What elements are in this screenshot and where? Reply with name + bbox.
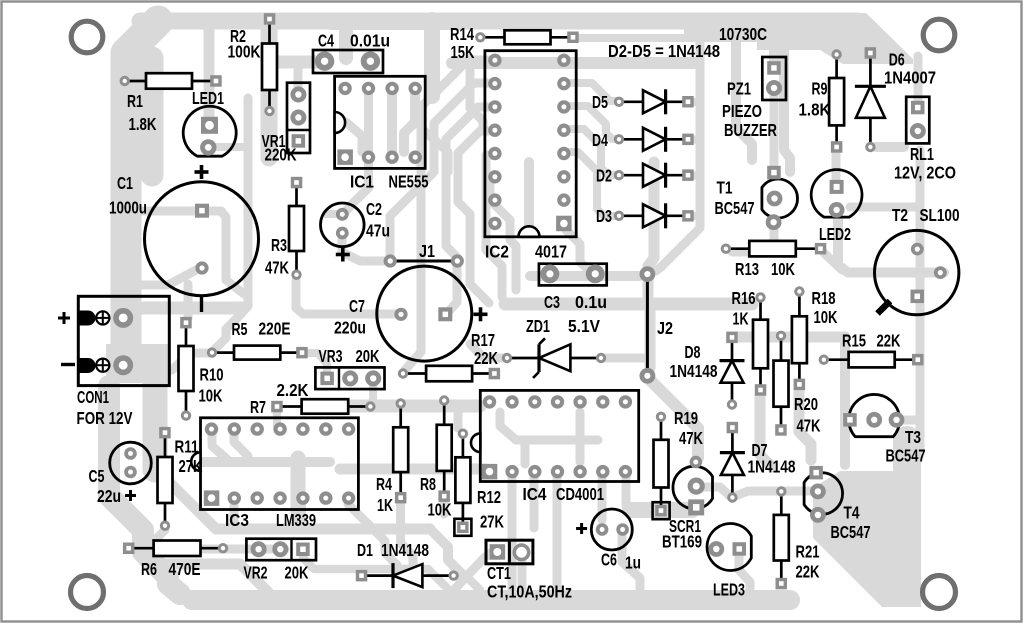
svg-text:LED3: LED3 bbox=[713, 579, 745, 599]
wire T3 to rail bbox=[898, 416, 918, 425]
wire central band bbox=[505, 298, 752, 311]
wire R4 drop to band bbox=[401, 502, 413, 566]
svg-text:R21: R21 bbox=[796, 542, 820, 562]
wire T1 emitter to R13 bbox=[732, 228, 774, 252]
resistor R18 bbox=[792, 286, 838, 390]
LED LED2 bbox=[811, 170, 862, 244]
wire R19 drop bbox=[622, 477, 631, 506]
wire left rail bottom diagonal bbox=[109, 386, 180, 594]
wire CT1 right stub bbox=[518, 560, 527, 590]
svg-text:C7: C7 bbox=[349, 296, 365, 316]
wire R6 through trace bbox=[130, 545, 285, 554]
wire C2 top stub bbox=[326, 210, 336, 218]
wire band over R4 R8 pads bbox=[340, 400, 480, 413]
capacitor C6 bbox=[576, 509, 641, 572]
svg-text:J2: J2 bbox=[657, 318, 673, 338]
wire IC2 fan 2 to J1 left bbox=[390, 83, 494, 256]
wire PZ1 feed bbox=[769, 32, 779, 60]
wire vertical left of IC2 bbox=[470, 58, 483, 129]
transistor T4 bbox=[804, 466, 870, 542]
wire C6 to bottom band bbox=[622, 535, 640, 592]
svg-text:D3: D3 bbox=[596, 206, 612, 226]
wire R5 right to VR3 bbox=[302, 353, 327, 374]
wire cathode stub D5 bbox=[690, 98, 700, 106]
zener ZD1 bbox=[502, 316, 606, 378]
svg-text:T3: T3 bbox=[905, 427, 921, 447]
svg-text:ZD1: ZD1 bbox=[526, 316, 550, 336]
wire IC2 fan 5 bbox=[486, 155, 502, 297]
resistor R7 bbox=[250, 380, 376, 417]
wire R3 column bbox=[296, 280, 303, 314]
svg-text:BT169: BT169 bbox=[662, 532, 702, 552]
svg-text:1N4148: 1N4148 bbox=[670, 361, 718, 381]
wire J2 to SCR1 anode bbox=[650, 380, 698, 458]
wire IC1 inner strand 1 bbox=[387, 94, 397, 152]
wire R16 R18 band bbox=[736, 332, 845, 343]
svg-text:D5: D5 bbox=[592, 92, 608, 112]
wire C1 negative elbow bbox=[140, 269, 198, 285]
wire C2 to J1 bbox=[342, 240, 384, 261]
wire R8 stub down bbox=[440, 502, 449, 514]
wire VR3 wiper to R7 bbox=[369, 384, 377, 400]
resistor R12 bbox=[454, 429, 504, 536]
resistor R15 bbox=[819, 331, 924, 368]
svg-text:15K: 15K bbox=[451, 42, 475, 62]
resistor R9 bbox=[799, 49, 845, 152]
svg-text:R16: R16 bbox=[732, 288, 756, 308]
wire IC4 inner elbow bbox=[500, 412, 598, 440]
svg-text:C5: C5 bbox=[89, 466, 105, 486]
svg-text:47u: 47u bbox=[366, 221, 390, 241]
wire diag into IC1 area bbox=[424, 20, 440, 96]
wire R11 pad drop bbox=[151, 530, 165, 544]
wire IC1 exit right bbox=[421, 128, 448, 172]
wire IC4 inner vertical 2 bbox=[576, 412, 585, 462]
resistor R6 bbox=[123, 541, 228, 580]
wire bottom right blob bbox=[813, 462, 921, 607]
svg-text:1.8K: 1.8K bbox=[799, 100, 831, 120]
svg-text:4017: 4017 bbox=[535, 242, 567, 262]
resistor R1 bbox=[120, 73, 222, 134]
svg-text:PIEZO: PIEZO bbox=[722, 101, 762, 121]
wire top supply band bbox=[140, 13, 858, 30]
mounting hole top-left bbox=[71, 21, 103, 53]
resistor R16 bbox=[732, 288, 769, 396]
wire IC3 corner diagonal bbox=[348, 504, 397, 565]
wire top right blob bbox=[684, 13, 913, 64]
wire D7 to T4 base bbox=[733, 491, 810, 497]
wire blob neck bbox=[893, 440, 921, 472]
svg-text:T1: T1 bbox=[717, 178, 733, 198]
resistor R19 bbox=[653, 408, 704, 519]
resistor R8 bbox=[420, 395, 452, 519]
svg-text:220E: 220E bbox=[259, 319, 291, 339]
svg-text:1N4148: 1N4148 bbox=[748, 457, 796, 477]
wire R16 drop bbox=[760, 395, 772, 467]
wire staircase diag 2 bbox=[240, 564, 268, 592]
wire IC3 underrun to CT1 bbox=[430, 529, 464, 576]
wire IC3 elbow 1 bbox=[212, 435, 228, 460]
wire IC4 pin 11 drop bbox=[530, 477, 539, 528]
wire staircase diag 1 bbox=[143, 552, 240, 564]
wire rail right of LED1 bbox=[214, 98, 248, 350]
wire RL1 rail down bbox=[850, 150, 920, 207]
wire D6 to RL1 bbox=[876, 142, 904, 152]
wire C4 feed bbox=[271, 56, 322, 69]
svg-text:47K: 47K bbox=[797, 416, 821, 436]
wire R7 to IC3 bbox=[273, 412, 281, 426]
svg-text:CON1: CON1 bbox=[77, 387, 109, 407]
resistor R2 bbox=[228, 13, 278, 116]
resistor R3 bbox=[265, 177, 304, 280]
wire J1 right to C7 plus bbox=[450, 267, 457, 310]
svg-text:PZ1: PZ1 bbox=[727, 79, 751, 99]
wire rail behind R2 bbox=[261, 23, 278, 158]
svg-text:R15: R15 bbox=[842, 331, 866, 351]
wire band through IC2 bbox=[452, 57, 698, 69]
svg-text:VR3: VR3 bbox=[319, 346, 343, 366]
svg-text:R11: R11 bbox=[175, 437, 199, 457]
svg-text:12V, 2CO: 12V, 2CO bbox=[894, 162, 956, 182]
svg-text:R19: R19 bbox=[674, 408, 698, 428]
svg-text:20K: 20K bbox=[356, 346, 380, 366]
wire diode cathode rail bbox=[656, 38, 700, 271]
svg-text:10K: 10K bbox=[814, 307, 838, 327]
resistor R21 bbox=[774, 486, 820, 589]
LED LED3 bbox=[707, 524, 751, 600]
wire rail behind J2 link bbox=[645, 308, 656, 368]
wire IC2 fan 4 bbox=[458, 131, 494, 303]
wire ZD1 right to J2 bbox=[601, 354, 646, 363]
wire R12 feed bbox=[454, 406, 463, 428]
trimpot VR1 bbox=[262, 83, 311, 165]
wire rail to IC3 under-run bbox=[155, 468, 430, 529]
wire SCR1 gate bar bbox=[630, 502, 692, 518]
resistor R20 bbox=[774, 331, 821, 436]
svg-text:R8: R8 bbox=[420, 474, 436, 494]
svg-text:1N4148: 1N4148 bbox=[381, 540, 429, 560]
wire IC4 pin 12 drop bbox=[508, 477, 517, 594]
svg-text:1K: 1K bbox=[377, 495, 393, 515]
resistor R13 bbox=[721, 241, 827, 279]
svg-text:VR2: VR2 bbox=[244, 563, 268, 583]
wire to C7 negative bbox=[303, 310, 396, 319]
svg-text:10K: 10K bbox=[771, 259, 795, 279]
capacitor C5 bbox=[89, 442, 152, 506]
wire cathode stub D4 bbox=[690, 136, 700, 144]
svg-text:0.1u: 0.1u bbox=[575, 292, 607, 312]
op-amp timer IC1 NE555 bbox=[335, 76, 429, 191]
wire IC3 pad stub b bbox=[297, 505, 306, 525]
diode D8 bbox=[670, 332, 745, 410]
svg-text:RL1: RL1 bbox=[910, 144, 934, 164]
label D2-D5 bbox=[608, 41, 720, 61]
wire IC2 pin to D4 anode bbox=[566, 106, 619, 139]
svg-text:22K: 22K bbox=[474, 348, 498, 368]
svg-text:1.8K: 1.8K bbox=[129, 114, 157, 134]
svg-text:R10: R10 bbox=[200, 365, 224, 385]
svg-text:10K: 10K bbox=[199, 386, 223, 406]
wire IC3 inner vertical bbox=[291, 458, 306, 526]
mounting hole bottom-right bbox=[923, 576, 956, 609]
wire LED1 cathode stub bbox=[210, 143, 244, 151]
wire D1 to CT1 trace bbox=[454, 576, 480, 590]
wire R5 left elbow bbox=[172, 353, 212, 370]
wire LED3 to bottom band bbox=[739, 554, 750, 592]
wire IC3 mid trace bbox=[196, 457, 330, 467]
wire central band lower left bbox=[530, 271, 640, 281]
svg-text:BC547: BC547 bbox=[831, 522, 871, 542]
svg-text:47K: 47K bbox=[679, 428, 703, 448]
svg-text:R5: R5 bbox=[232, 319, 248, 339]
svg-text:C1: C1 bbox=[117, 173, 133, 193]
wire cathode stub D3 bbox=[690, 212, 700, 220]
svg-text:IC4: IC4 bbox=[523, 484, 547, 504]
svg-text:R1: R1 bbox=[127, 91, 143, 111]
svg-text:D2: D2 bbox=[596, 166, 612, 186]
wire LED2 to T2 band bbox=[838, 214, 944, 273]
svg-text:R14: R14 bbox=[450, 24, 474, 44]
wire IC2 pin1 to C3 bbox=[566, 230, 590, 271]
transistor T2 SL100 bbox=[875, 205, 960, 315]
svg-text:R17: R17 bbox=[471, 330, 495, 350]
svg-text:R20: R20 bbox=[794, 394, 818, 414]
wire IC2 pin to D2 anode bbox=[566, 129, 619, 175]
wire CT1 left diagonal bbox=[452, 552, 492, 592]
svg-text:CT1: CT1 bbox=[487, 563, 511, 583]
wire R9 to LED2 bbox=[832, 152, 841, 180]
svg-text:470E: 470E bbox=[169, 559, 201, 579]
svg-text:22u: 22u bbox=[97, 486, 121, 506]
wire IC4 to C6 bbox=[598, 477, 607, 520]
svg-text:220u: 220u bbox=[334, 318, 366, 338]
svg-text:27K: 27K bbox=[480, 511, 504, 531]
wire IC3 pad stub a bbox=[230, 505, 239, 525]
svg-text:IC2: IC2 bbox=[485, 242, 509, 262]
svg-text:R13: R13 bbox=[735, 259, 759, 279]
svg-text:1N4007: 1N4007 bbox=[884, 68, 936, 88]
svg-text:T4: T4 bbox=[844, 503, 860, 523]
diode D4 bbox=[592, 127, 694, 152]
svg-text:10730C: 10730C bbox=[719, 24, 767, 44]
svg-text:CD4001: CD4001 bbox=[556, 484, 604, 504]
resistor R4 bbox=[376, 398, 408, 515]
wire R9 feed bbox=[832, 30, 841, 48]
svg-text:R3: R3 bbox=[271, 235, 287, 255]
wire bottom band left connector bbox=[178, 592, 192, 599]
svg-text:27K: 27K bbox=[179, 456, 203, 476]
wire R14 to diode cathode rail bbox=[578, 34, 700, 42]
wire central rail above J2 bbox=[648, 162, 654, 305]
wire blob to RL1 bbox=[914, 56, 923, 100]
transformer CT1 bbox=[486, 540, 572, 601]
wire ZD1 left feed bbox=[470, 344, 507, 358]
diode D3 bbox=[596, 203, 694, 228]
wire column left of PZ1 bbox=[736, 40, 752, 160]
svg-text:NE555: NE555 bbox=[389, 172, 429, 192]
svg-text:D6: D6 bbox=[889, 50, 905, 70]
svg-text:R9: R9 bbox=[812, 79, 828, 99]
mounting hole bottom-left bbox=[71, 576, 104, 609]
diode D2 bbox=[596, 163, 694, 188]
wire T2 vertical rail bbox=[916, 212, 925, 455]
wire IC4 pin 10 drop bbox=[553, 477, 562, 592]
wire T1 base rail bbox=[770, 96, 779, 166]
jumper J2 bbox=[640, 266, 674, 383]
svg-text:22K: 22K bbox=[877, 331, 901, 351]
capacitor C2 bbox=[321, 199, 391, 262]
wire IC2 fan 6 bbox=[490, 178, 516, 290]
wire VR1 top feed bbox=[294, 62, 303, 88]
SCR SCR1 BT169 bbox=[662, 456, 713, 552]
wire IC2 fan 3 to J1 right bbox=[446, 107, 494, 257]
wire IC1 to C2 bbox=[346, 160, 369, 211]
svg-text:LED2: LED2 bbox=[819, 224, 851, 244]
resistor R17 bbox=[398, 330, 500, 381]
svg-text:R12: R12 bbox=[477, 487, 501, 507]
wire CON1 block bbox=[106, 344, 168, 383]
wire bottom supply band bbox=[192, 590, 790, 610]
wire C1 right elbow bbox=[208, 211, 244, 294]
svg-text:C6: C6 bbox=[601, 549, 617, 569]
comparator IC3 LM339 bbox=[191, 418, 358, 530]
svg-text:BUZZER: BUZZER bbox=[724, 120, 777, 140]
svg-text:R7: R7 bbox=[250, 397, 266, 417]
wire cathode stub D2 bbox=[690, 171, 700, 179]
svg-text:0.01u: 0.01u bbox=[350, 31, 390, 51]
capacitor C7 bbox=[334, 266, 488, 361]
jumper J1 bbox=[384, 241, 464, 268]
wire top band to left rail bbox=[126, 21, 158, 352]
wire IC2 pin to D5 anode bbox=[566, 83, 619, 101]
svg-text:1K: 1K bbox=[733, 309, 749, 329]
resistor R10 bbox=[179, 317, 224, 421]
resistor R5 bbox=[207, 319, 308, 360]
trimpot VR2 bbox=[244, 539, 317, 583]
svg-text:T2: T2 bbox=[892, 205, 908, 225]
wire SCR1 cathode to D7 bbox=[704, 487, 731, 497]
wire T3 rail bbox=[840, 337, 850, 465]
wire R18 drop bbox=[799, 390, 811, 460]
wire R13 pad diagonal bbox=[824, 253, 842, 270]
resistor R11 bbox=[158, 427, 203, 531]
wire IC1 notch elbow bbox=[346, 122, 362, 152]
capacitor C1 bbox=[109, 165, 259, 312]
wire IC1 inner strand 2 bbox=[404, 94, 415, 152]
wire band under C1 bbox=[140, 302, 242, 315]
svg-text:D2-D5 = 1N4148: D2-D5 = 1N4148 bbox=[608, 41, 720, 61]
svg-text:CT,10A,50Hz: CT,10A,50Hz bbox=[487, 581, 572, 601]
wire top band thick segment bbox=[330, 13, 462, 30]
wire IC2 fan 1 to C7 bbox=[405, 60, 494, 370]
svg-text:R6: R6 bbox=[141, 559, 157, 579]
wire pillar to C4 left pad bbox=[339, 26, 353, 58]
connector CON1 bbox=[58, 296, 169, 428]
svg-text:SL100: SL100 bbox=[920, 205, 960, 225]
wire CON1 down rail bbox=[143, 382, 168, 470]
svg-text:C4: C4 bbox=[318, 31, 334, 51]
svg-text:FOR 12V: FOR 12V bbox=[77, 408, 133, 428]
wire band under R4 R8 bbox=[340, 464, 486, 475]
capacitor C3 bbox=[539, 264, 607, 312]
label board code 10730C bbox=[719, 24, 767, 44]
svg-text:D8: D8 bbox=[685, 342, 701, 362]
svg-text:R4: R4 bbox=[376, 474, 392, 494]
svg-text:D1: D1 bbox=[357, 540, 373, 560]
svg-text:47K: 47K bbox=[265, 258, 289, 278]
svg-text:IC1: IC1 bbox=[350, 172, 374, 192]
svg-text:1u: 1u bbox=[625, 552, 641, 572]
trimpot VR3 bbox=[315, 346, 384, 389]
svg-text:22K: 22K bbox=[796, 561, 820, 581]
svg-text:100K: 100K bbox=[228, 42, 261, 62]
svg-text:LED1: LED1 bbox=[192, 88, 224, 108]
IC IC2 4017 bbox=[485, 51, 576, 262]
mounting hole top-right bbox=[923, 19, 955, 51]
wire stub to LED1 anode bbox=[204, 26, 215, 120]
capacitor C4 bbox=[313, 31, 390, 74]
wire IC2 inner strand bbox=[524, 162, 534, 230]
wire column right of PZ1 bbox=[784, 44, 790, 172]
svg-text:20K: 20K bbox=[285, 563, 309, 583]
wire rail behind R1 bbox=[141, 58, 164, 175]
wire IC4 inner vertical 1 bbox=[521, 440, 530, 464]
svg-text:220K: 220K bbox=[265, 145, 297, 165]
LED LED1 bbox=[183, 88, 236, 156]
svg-text:C2: C2 bbox=[366, 199, 382, 219]
wire IC1 inner strand 0 bbox=[364, 94, 373, 150]
wire IC2 pin to D3 anode bbox=[566, 152, 619, 216]
svg-text:BC547: BC547 bbox=[715, 198, 755, 218]
svg-text:1000u: 1000u bbox=[109, 198, 147, 218]
piezo PZ1 bbox=[722, 57, 786, 140]
diode D7 bbox=[720, 422, 796, 503]
wire R10 feed bbox=[184, 284, 193, 318]
relay RL1 bbox=[894, 97, 956, 183]
diode D5 bbox=[592, 89, 694, 114]
resistor R14 bbox=[450, 24, 579, 62]
svg-text:LM339: LM339 bbox=[276, 510, 316, 530]
svg-text:C3: C3 bbox=[544, 292, 560, 312]
wire C1 positive to rail bbox=[140, 207, 200, 216]
diode D6 bbox=[855, 47, 936, 152]
svg-text:D4: D4 bbox=[592, 130, 608, 150]
svg-text:J1: J1 bbox=[419, 241, 435, 261]
NOR IC4 CD4001 bbox=[471, 390, 639, 504]
svg-text:5.1V: 5.1V bbox=[568, 316, 600, 336]
transistor T1 bbox=[715, 166, 798, 230]
svg-text:R18: R18 bbox=[812, 288, 836, 308]
svg-text:BC547: BC547 bbox=[886, 445, 926, 465]
svg-text:IC3: IC3 bbox=[225, 510, 249, 530]
diode D1 bbox=[356, 540, 459, 588]
transistor T3 bbox=[843, 394, 925, 465]
svg-text:10K: 10K bbox=[428, 499, 452, 519]
wire IC3 elbow 2 bbox=[234, 435, 248, 456]
wire VR2 to D1 trace bbox=[303, 555, 447, 588]
svg-text:2.2K: 2.2K bbox=[277, 380, 309, 400]
